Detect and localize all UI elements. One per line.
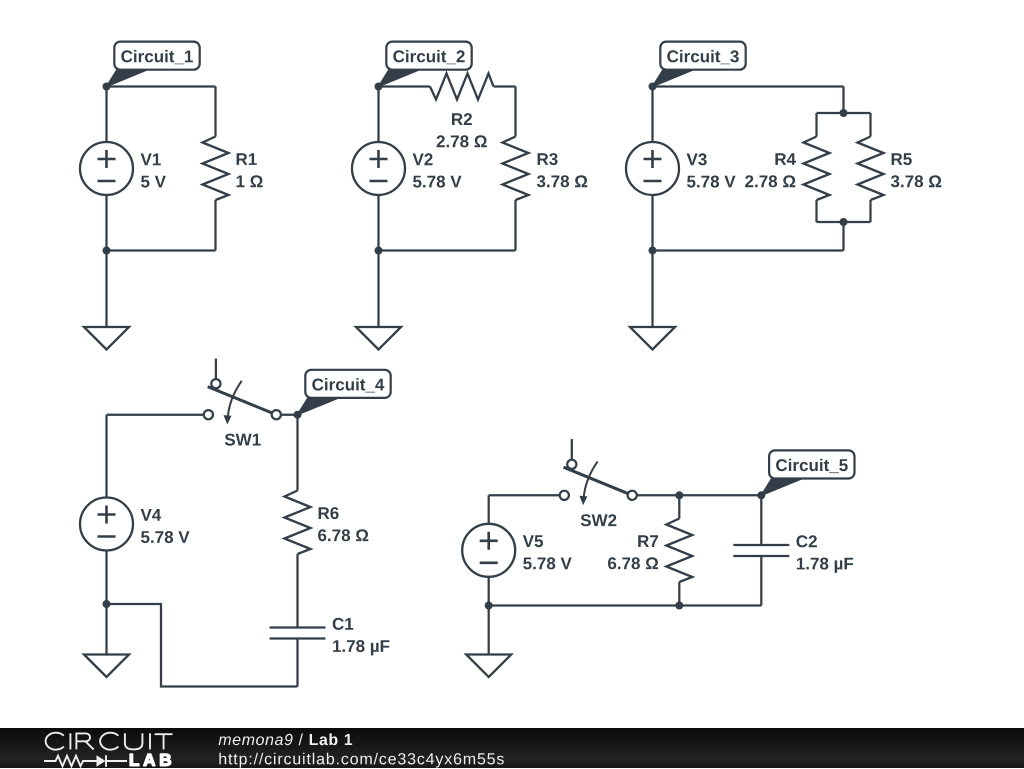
node parallel top junction bbox=[840, 109, 848, 117]
voltage source V3 bbox=[626, 142, 679, 195]
value label 1.78 µF bbox=[333, 640, 389, 655]
ground bbox=[356, 327, 401, 350]
wire V3 top lead bbox=[651, 87, 653, 143]
wire parallel top bar bbox=[817, 112, 871, 114]
label V2 bbox=[413, 153, 433, 165]
footer banner bbox=[0, 728, 1024, 768]
resistor R3 bbox=[503, 137, 529, 201]
voltage source V4 bbox=[80, 498, 133, 551]
wire R5 bottom lead bbox=[869, 200, 871, 222]
node Circuit_4 bbox=[294, 411, 302, 419]
node label callout Circuit_3 bbox=[653, 42, 746, 87]
wire R4 bottom lead bbox=[815, 200, 817, 222]
voltage source V1 bbox=[80, 142, 133, 195]
value label 2.78 ohm bbox=[437, 135, 487, 147]
wire top rail circuit 1 bbox=[107, 85, 216, 87]
wire V5 top lead bbox=[488, 495, 490, 524]
node bottom junction circuit 2 bbox=[375, 247, 383, 255]
label C1 bbox=[333, 618, 354, 630]
node label callout Circuit_2 bbox=[379, 42, 472, 87]
label R2 bbox=[452, 113, 472, 125]
capacitor C2 bbox=[733, 545, 789, 556]
wire R1 top lead bbox=[214, 87, 216, 137]
wire V2 top lead bbox=[377, 87, 379, 143]
wire to ground circuit 3 bbox=[651, 251, 653, 328]
label SW1 bbox=[225, 434, 261, 446]
footer url bbox=[219, 753, 503, 768]
wire R1 bottom lead bbox=[214, 200, 216, 251]
node parallel bottom junction bbox=[840, 218, 848, 226]
node R7 bottom junction bbox=[675, 602, 683, 610]
value label 1.78 µF bbox=[797, 558, 853, 573]
wire switch to node bbox=[281, 414, 298, 416]
wire down from parallel pair bbox=[842, 222, 844, 251]
wire parallel bottom bar bbox=[817, 221, 871, 223]
node ground junction circuit 5 bbox=[485, 602, 493, 610]
ground bbox=[84, 655, 129, 678]
value label 5.78 V bbox=[141, 531, 190, 543]
label R1 bbox=[237, 153, 257, 165]
node bottom junction circuit 3 bbox=[649, 247, 657, 255]
wire top rail left circuit 2 bbox=[379, 85, 431, 87]
node label callout Circuit_4 bbox=[298, 370, 391, 415]
wire bottom return circuit 4 bbox=[107, 604, 298, 687]
ground bbox=[466, 655, 511, 678]
wire top rail right circuit 2 bbox=[494, 85, 516, 87]
wire to ground circuit 4 bbox=[105, 604, 107, 655]
voltage source V5 bbox=[462, 524, 515, 577]
wire V1 top lead bbox=[105, 87, 107, 143]
wire bottom rail circuit 1 bbox=[107, 249, 216, 251]
ground bbox=[630, 327, 675, 350]
wire C1 bottom lead bbox=[296, 639, 298, 687]
node Circuit_1 bbox=[103, 83, 111, 91]
footer title: memona9 / Lab 1 bbox=[219, 733, 353, 745]
node label callout Circuit_1 bbox=[107, 42, 200, 87]
wire to ground circuit 1 bbox=[105, 251, 107, 328]
wire R3 bottom lead bbox=[514, 200, 516, 251]
wire to ground circuit 2 bbox=[377, 251, 379, 328]
wire V5 bottom lead bbox=[488, 577, 490, 606]
label R6 bbox=[319, 507, 339, 519]
capacitor C1 bbox=[270, 628, 326, 639]
resistor R1 bbox=[203, 137, 229, 201]
label V4 bbox=[141, 509, 162, 521]
switch SW2 (SPDT) bbox=[560, 439, 637, 505]
label R4 bbox=[775, 153, 796, 165]
wire C2 bottom lead bbox=[760, 556, 762, 606]
label V1 bbox=[141, 154, 161, 166]
value label 3.78 Ω bbox=[537, 175, 587, 187]
wire V4 to switch bbox=[107, 414, 209, 416]
wire R7 bottom lead bbox=[678, 582, 680, 606]
wire V5 to switch bbox=[489, 494, 565, 496]
wire switch to C2 node bbox=[637, 494, 762, 496]
label R3 bbox=[538, 153, 558, 165]
wire V4 bottom lead bbox=[105, 551, 107, 605]
label V5 bbox=[523, 535, 543, 547]
node Circuit_3 bbox=[649, 83, 657, 91]
voltage source V2 bbox=[352, 142, 405, 195]
value label 3.78 Ω bbox=[891, 175, 941, 187]
resistor R2 bbox=[430, 74, 494, 100]
node ground junction circuit 4 bbox=[103, 600, 111, 608]
label R5 bbox=[892, 153, 912, 165]
node Circuit_5 bbox=[757, 491, 765, 499]
value label 5 V bbox=[141, 176, 166, 188]
wire bottom rail circuit 3 bbox=[653, 249, 844, 251]
ground bbox=[84, 327, 129, 350]
wire down to parallel pair bbox=[842, 87, 844, 114]
wire V4 top lead bbox=[105, 415, 107, 498]
wire R4 top lead bbox=[815, 113, 817, 137]
wire bottom rail circuit 5 bbox=[489, 604, 762, 606]
resistor R4 bbox=[804, 137, 830, 201]
switch SW1 (SPDT) bbox=[204, 359, 281, 425]
label C2 bbox=[797, 535, 817, 547]
CircuitLab logo symbol: resistor and diode bbox=[44, 753, 130, 769]
wire to ground circuit 5 bbox=[488, 606, 490, 655]
wire V2 bottom lead bbox=[377, 195, 379, 251]
CircuitLab logo text CIRCUIT bbox=[40, 731, 180, 753]
wire R6 top lead bbox=[296, 415, 298, 491]
wire R6 to C1 bbox=[296, 554, 298, 628]
wire R5 top lead bbox=[869, 113, 871, 137]
wire V1 bottom lead bbox=[105, 195, 107, 251]
node bottom junction circuit 1 bbox=[103, 247, 111, 255]
wire C2 top lead bbox=[760, 495, 762, 545]
label R7 bbox=[638, 535, 658, 547]
wire top rail circuit 3 bbox=[653, 85, 844, 87]
wire V3 bottom lead bbox=[651, 195, 653, 251]
value label 2.78 Ω bbox=[745, 175, 795, 187]
node Circuit_2 bbox=[375, 83, 383, 91]
value label 5.78 V bbox=[687, 176, 736, 188]
resistor R5 bbox=[858, 137, 884, 201]
value label 5.78 V bbox=[413, 176, 462, 188]
label V3 bbox=[687, 153, 707, 165]
value label 1 Ω bbox=[237, 175, 263, 187]
value label 5.78 V bbox=[523, 557, 572, 569]
node R7 top junction bbox=[675, 491, 683, 499]
value label 6.78 Ω bbox=[608, 557, 658, 569]
label SW2 bbox=[581, 514, 617, 526]
wire R7 top lead bbox=[678, 495, 680, 518]
resistor R7 bbox=[666, 519, 692, 583]
resistor R6 bbox=[285, 491, 311, 555]
node label callout Circuit_5 bbox=[761, 450, 854, 495]
wire R3 top lead bbox=[514, 87, 516, 137]
wire bottom rail circuit 2 bbox=[379, 249, 516, 251]
value label 6.78 Ω bbox=[318, 529, 368, 541]
